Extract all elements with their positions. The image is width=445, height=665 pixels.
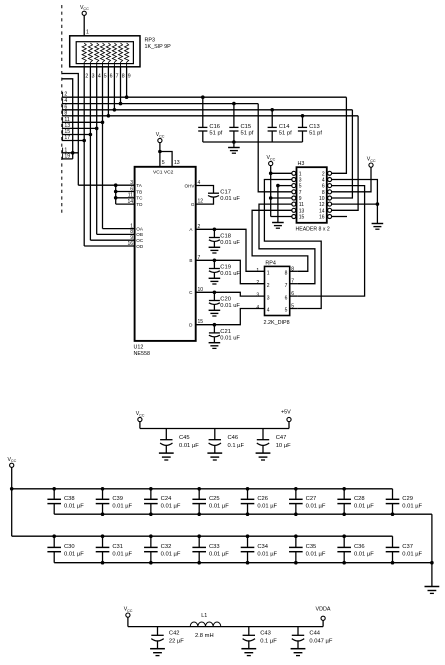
svg-text:14: 14 bbox=[127, 199, 133, 205]
svg-text:4: 4 bbox=[256, 305, 259, 311]
svg-text:51 pf: 51 pf bbox=[309, 131, 322, 137]
svg-text:8: 8 bbox=[64, 110, 67, 116]
svg-text:OD: OD bbox=[136, 244, 144, 249]
svg-text:OA: OA bbox=[136, 226, 144, 231]
svg-text:VC1 VC2: VC1 VC2 bbox=[153, 170, 174, 176]
svg-text:U12: U12 bbox=[134, 345, 144, 351]
svg-text:13: 13 bbox=[174, 160, 180, 166]
svg-text:0.01 µF: 0.01 µF bbox=[257, 552, 277, 558]
svg-text:C28: C28 bbox=[354, 496, 365, 502]
svg-text:0.01 µF: 0.01 µF bbox=[161, 504, 181, 510]
svg-text:4: 4 bbox=[98, 74, 101, 80]
svg-text:0.01 uF: 0.01 uF bbox=[220, 271, 240, 277]
svg-text:C25: C25 bbox=[209, 496, 220, 502]
svg-text:0.01 µF: 0.01 µF bbox=[64, 552, 84, 558]
svg-text:0.01 µF: 0.01 µF bbox=[306, 552, 326, 558]
svg-text:5: 5 bbox=[285, 308, 288, 314]
svg-text:2.2K_DIP8: 2.2K_DIP8 bbox=[264, 320, 290, 326]
svg-text:1: 1 bbox=[267, 271, 270, 277]
svg-text:2: 2 bbox=[267, 283, 270, 289]
svg-text:C38: C38 bbox=[64, 496, 75, 502]
svg-text:C19: C19 bbox=[220, 265, 231, 271]
svg-text:C30: C30 bbox=[64, 544, 75, 550]
svg-text:HEADER 8 x 2: HEADER 8 x 2 bbox=[296, 227, 330, 233]
svg-text:TA: TA bbox=[136, 183, 142, 188]
svg-text:7: 7 bbox=[299, 190, 302, 196]
svg-text:0.01 µF: 0.01 µF bbox=[209, 504, 229, 510]
svg-text:C37: C37 bbox=[402, 544, 413, 550]
svg-text:13: 13 bbox=[299, 208, 305, 214]
svg-text:C17: C17 bbox=[220, 190, 231, 196]
svg-text:C45: C45 bbox=[179, 435, 190, 441]
svg-text:NE558: NE558 bbox=[134, 351, 150, 357]
svg-text:CC: CC bbox=[139, 413, 145, 417]
svg-text:7: 7 bbox=[116, 74, 119, 80]
svg-text:3: 3 bbox=[130, 180, 133, 186]
svg-text:1: 1 bbox=[64, 147, 67, 153]
svg-text:0.01 µF: 0.01 µF bbox=[179, 443, 199, 449]
svg-text:G: G bbox=[191, 202, 195, 207]
svg-text:22 µF: 22 µF bbox=[169, 639, 184, 645]
svg-text:C20: C20 bbox=[220, 297, 231, 303]
svg-text:C42: C42 bbox=[169, 631, 180, 637]
svg-text:6: 6 bbox=[110, 74, 113, 80]
svg-text:15: 15 bbox=[299, 215, 305, 221]
svg-text:2: 2 bbox=[64, 92, 67, 98]
svg-text:0.01 uF: 0.01 uF bbox=[220, 335, 240, 341]
svg-text:TC: TC bbox=[136, 196, 143, 201]
svg-text:4: 4 bbox=[64, 98, 67, 104]
svg-text:5: 5 bbox=[291, 304, 294, 310]
svg-text:10 µF: 10 µF bbox=[276, 443, 291, 449]
svg-text:CC: CC bbox=[127, 609, 133, 613]
svg-text:0.01 uF: 0.01 uF bbox=[220, 303, 240, 309]
svg-text:6: 6 bbox=[130, 186, 133, 192]
svg-text:3: 3 bbox=[256, 293, 259, 299]
svg-text:7: 7 bbox=[291, 279, 294, 285]
svg-text:C24: C24 bbox=[161, 496, 172, 502]
svg-text:C16: C16 bbox=[209, 124, 220, 130]
svg-text:10: 10 bbox=[319, 196, 325, 202]
svg-text:6: 6 bbox=[285, 295, 288, 301]
svg-text:0.01 µF: 0.01 µF bbox=[354, 552, 374, 558]
svg-text:0.01 µF: 0.01 µF bbox=[306, 504, 326, 510]
svg-text:CC: CC bbox=[83, 7, 89, 11]
svg-text:+5V: +5V bbox=[281, 410, 291, 416]
svg-text:0.01 µF: 0.01 µF bbox=[161, 552, 181, 558]
svg-text:3: 3 bbox=[267, 295, 270, 301]
svg-text:TB: TB bbox=[136, 189, 142, 194]
svg-text:0.047 µF: 0.047 µF bbox=[309, 639, 332, 645]
svg-text:0.01 µF: 0.01 µF bbox=[257, 504, 277, 510]
svg-text:2.8 mH: 2.8 mH bbox=[195, 633, 214, 639]
svg-text:19: 19 bbox=[64, 153, 70, 159]
svg-text:C33: C33 bbox=[209, 544, 220, 550]
svg-text:1K_SIP 9P: 1K_SIP 9P bbox=[145, 44, 172, 50]
svg-text:2: 2 bbox=[322, 171, 325, 177]
svg-text:RP4: RP4 bbox=[265, 261, 276, 267]
svg-text:6: 6 bbox=[322, 184, 325, 190]
svg-text:RP3: RP3 bbox=[145, 38, 156, 44]
svg-text:0.01 µF: 0.01 µF bbox=[402, 504, 422, 510]
svg-text:11: 11 bbox=[64, 117, 69, 123]
svg-text:7: 7 bbox=[285, 283, 288, 289]
svg-text:C29: C29 bbox=[402, 496, 413, 502]
svg-text:C18: C18 bbox=[220, 234, 231, 240]
svg-text:6: 6 bbox=[291, 291, 294, 297]
svg-text:OB: OB bbox=[136, 232, 143, 237]
svg-text:16: 16 bbox=[319, 215, 325, 221]
svg-text:C15: C15 bbox=[241, 124, 252, 130]
svg-text:8: 8 bbox=[122, 74, 125, 80]
svg-text:C43: C43 bbox=[260, 631, 271, 637]
svg-text:0.01 µF: 0.01 µF bbox=[209, 552, 229, 558]
svg-text:12: 12 bbox=[319, 202, 325, 208]
svg-text:C13: C13 bbox=[309, 124, 320, 130]
svg-text:TD: TD bbox=[136, 202, 143, 207]
svg-text:4: 4 bbox=[322, 178, 325, 184]
svg-text:0.1 µF: 0.1 µF bbox=[228, 443, 245, 449]
svg-text:3: 3 bbox=[92, 74, 95, 80]
svg-text:C31: C31 bbox=[112, 544, 123, 550]
svg-text:8: 8 bbox=[322, 190, 325, 196]
svg-text:5: 5 bbox=[104, 74, 107, 80]
svg-text:C14: C14 bbox=[279, 124, 290, 130]
svg-text:1: 1 bbox=[256, 268, 259, 274]
svg-text:8: 8 bbox=[291, 266, 294, 272]
svg-text:C44: C44 bbox=[309, 631, 320, 637]
svg-text:0.01 µF: 0.01 µF bbox=[112, 504, 132, 510]
svg-text:C47: C47 bbox=[276, 435, 287, 441]
svg-text:16: 16 bbox=[127, 241, 133, 247]
svg-text:C36: C36 bbox=[354, 544, 365, 550]
svg-text:17: 17 bbox=[64, 135, 70, 141]
svg-text:0.01 uF: 0.01 uF bbox=[220, 240, 240, 246]
svg-text:1: 1 bbox=[86, 30, 89, 36]
svg-text:H3: H3 bbox=[298, 161, 305, 167]
svg-text:0.1 µF: 0.1 µF bbox=[260, 639, 277, 645]
svg-text:1: 1 bbox=[299, 171, 302, 177]
svg-text:5: 5 bbox=[299, 184, 302, 190]
svg-text:9: 9 bbox=[299, 196, 302, 202]
svg-text:CC: CC bbox=[11, 459, 17, 463]
svg-text:51 pf: 51 pf bbox=[279, 131, 292, 137]
svg-text:L1: L1 bbox=[201, 613, 207, 619]
svg-text:2: 2 bbox=[256, 280, 259, 286]
svg-text:3: 3 bbox=[299, 178, 302, 184]
svg-text:51 pf: 51 pf bbox=[209, 131, 222, 137]
svg-text:0.01 uF: 0.01 uF bbox=[220, 196, 240, 202]
svg-text:0.01 µF: 0.01 µF bbox=[64, 504, 84, 510]
svg-text:11: 11 bbox=[128, 193, 133, 199]
svg-text:C46: C46 bbox=[228, 435, 239, 441]
svg-text:0.01 µF: 0.01 µF bbox=[354, 504, 374, 510]
svg-text:14: 14 bbox=[319, 208, 325, 214]
svg-text:13: 13 bbox=[64, 123, 70, 129]
svg-text:8: 8 bbox=[285, 271, 288, 277]
svg-text:B: B bbox=[189, 258, 192, 263]
svg-text:4: 4 bbox=[267, 308, 270, 314]
svg-text:C26: C26 bbox=[257, 496, 268, 502]
svg-text:C34: C34 bbox=[257, 544, 268, 550]
svg-text:9: 9 bbox=[128, 74, 131, 80]
svg-text:0.01 µF: 0.01 µF bbox=[402, 552, 422, 558]
svg-text:51 pf: 51 pf bbox=[241, 131, 254, 137]
svg-text:CC: CC bbox=[270, 157, 276, 161]
svg-text:OHV: OHV bbox=[185, 183, 196, 188]
svg-text:0.01 µF: 0.01 µF bbox=[112, 552, 132, 558]
svg-text:C35: C35 bbox=[306, 544, 317, 550]
svg-text:CC: CC bbox=[159, 134, 165, 138]
svg-text:CC: CC bbox=[370, 159, 376, 163]
svg-text:11: 11 bbox=[299, 202, 304, 208]
svg-text:2: 2 bbox=[85, 74, 88, 80]
svg-text:C27: C27 bbox=[306, 496, 317, 502]
svg-text:OC: OC bbox=[136, 238, 144, 243]
svg-text:C39: C39 bbox=[112, 496, 123, 502]
svg-text:C32: C32 bbox=[161, 544, 172, 550]
svg-text:C21: C21 bbox=[220, 329, 231, 335]
svg-text:VDDA: VDDA bbox=[316, 607, 331, 613]
svg-text:5: 5 bbox=[162, 160, 165, 166]
